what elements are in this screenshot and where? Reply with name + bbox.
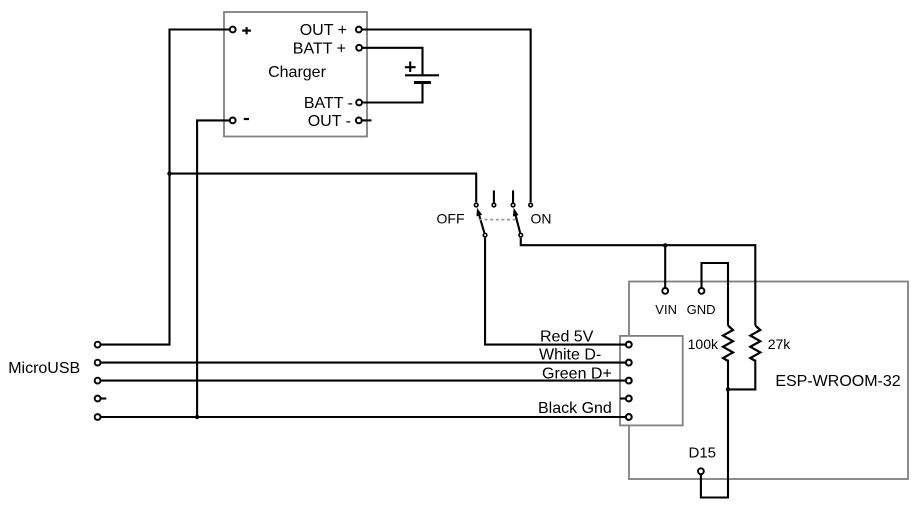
svg-text:ON: ON xyxy=(531,211,552,227)
svg-text:Green D+: Green D+ xyxy=(542,366,612,383)
svg-text:GND: GND xyxy=(687,302,716,317)
svg-text:BATT +: BATT + xyxy=(293,41,346,58)
svg-text:Charger: Charger xyxy=(268,64,326,81)
svg-text:OFF: OFF xyxy=(437,211,465,227)
svg-text:White D-: White D- xyxy=(539,347,601,364)
svg-text:D15: D15 xyxy=(689,445,717,462)
svg-text:Black Gnd: Black Gnd xyxy=(538,400,612,417)
svg-text:ESP-WROOM-32: ESP-WROOM-32 xyxy=(775,373,900,390)
svg-text:100k: 100k xyxy=(688,336,719,352)
svg-text:OUT -: OUT - xyxy=(308,113,351,130)
svg-text:Red 5V: Red 5V xyxy=(540,329,594,346)
svg-text:MicroUSB: MicroUSB xyxy=(8,360,80,377)
svg-text:OUT +: OUT + xyxy=(300,22,347,39)
svg-text:BATT -: BATT - xyxy=(304,95,353,112)
svg-text:VIN: VIN xyxy=(655,302,677,317)
svg-text:27k: 27k xyxy=(768,336,792,352)
